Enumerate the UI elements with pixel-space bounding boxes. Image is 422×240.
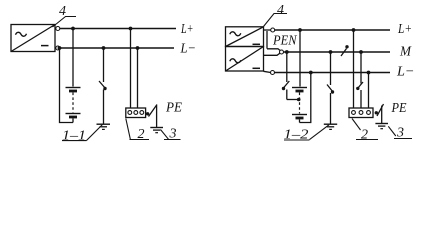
svg-text:PE: PE — [391, 101, 407, 116]
svg-text:M: M — [399, 45, 412, 60]
svg-text:2: 2 — [361, 128, 368, 143]
svg-text:PE: PE — [165, 101, 182, 116]
svg-text:1–2: 1–2 — [284, 128, 309, 143]
svg-text:4: 4 — [59, 4, 66, 19]
svg-text:3: 3 — [169, 127, 177, 142]
svg-text:1–1: 1–1 — [62, 128, 86, 143]
svg-text:L+: L+ — [397, 22, 412, 37]
svg-text:L+: L+ — [180, 22, 193, 37]
svg-text:3: 3 — [396, 126, 404, 141]
svg-text:L−: L− — [396, 65, 415, 80]
svg-text:4: 4 — [277, 3, 284, 18]
svg-text:L−: L− — [180, 41, 196, 56]
svg-text:2: 2 — [138, 127, 145, 142]
svg-text:PEN: PEN — [272, 33, 297, 48]
